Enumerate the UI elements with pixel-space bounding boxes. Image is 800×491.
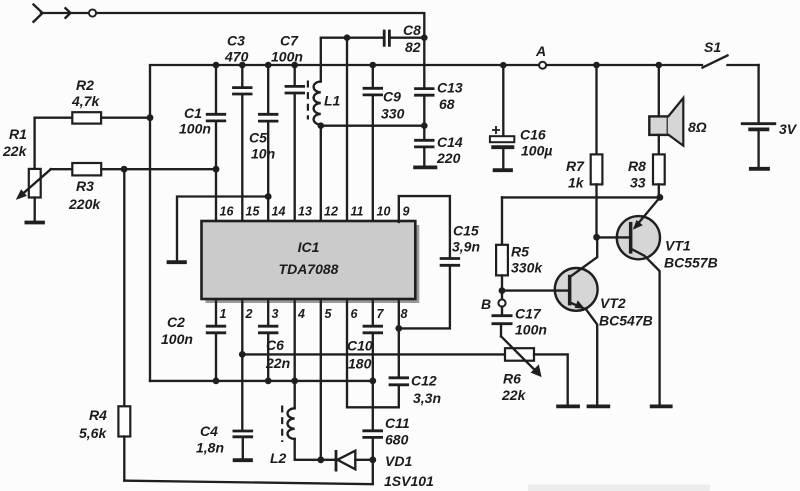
svg-text:C3: C3: [227, 33, 245, 49]
svg-text:IC1: IC1: [298, 239, 320, 255]
node B: [481, 296, 506, 312]
svg-text:22n: 22n: [265, 355, 290, 371]
svg-text:C5: C5: [249, 130, 267, 146]
bottom wire R4 to VD1 node: [124, 460, 372, 484]
faint erased watermark bottom: [528, 485, 710, 491]
speaker BA1: [649, 65, 706, 154]
wire pin8: [398, 301, 400, 329]
capacitor C17: [492, 306, 547, 338]
svg-text:4: 4: [297, 307, 305, 321]
svg-text:470: 470: [224, 49, 249, 65]
transistor VT2 BC547B: [502, 237, 653, 405]
resistor R8: [628, 154, 665, 197]
svg-text:1SV101: 1SV101: [384, 473, 434, 489]
wire antenna line to C13 drop: [96, 13, 424, 37]
svg-text:11: 11: [351, 205, 364, 219]
svg-text:A: A: [535, 43, 546, 59]
capacitor C16: [490, 65, 553, 168]
svg-text:100n: 100n: [515, 322, 547, 338]
bus junction dots: [213, 378, 220, 385]
capacitor C4: [196, 423, 253, 458]
svg-text:220: 220: [436, 150, 461, 166]
svg-text:C2: C2: [167, 314, 185, 330]
node dot VD1/C11/bottom wire: [369, 456, 376, 463]
svg-text:8: 8: [401, 307, 408, 321]
node dot R3/R4: [121, 166, 128, 173]
svg-text:R1: R1: [9, 126, 27, 142]
svg-text:C4: C4: [200, 423, 218, 439]
svg-text:100n: 100n: [161, 331, 193, 347]
svg-text:3: 3: [272, 307, 279, 321]
potentiometer R1: [2, 126, 51, 200]
node dot R8/VT1 emitter: [657, 194, 664, 201]
node dot C13/C14/L1 line: [421, 122, 428, 129]
node dot L2/pin5: [317, 456, 324, 463]
svg-text:C7: C7: [280, 33, 299, 49]
transistor VT1 BC557B: [597, 197, 718, 404]
node dot pin14 ground branch: [265, 193, 272, 200]
IC top pin numbers: [220, 205, 410, 219]
node dot R3 line / C1 / pin16: [213, 166, 220, 173]
ground under VT1: [650, 404, 673, 408]
svg-text:82: 82: [405, 39, 421, 55]
svg-text:10n: 10n: [251, 146, 275, 162]
ground bus under IC: [150, 380, 373, 382]
svg-text:C11: C11: [385, 415, 410, 431]
svg-text:5,6k: 5,6k: [79, 425, 107, 441]
svg-text:22k: 22k: [2, 143, 28, 159]
svg-text:C10: C10: [347, 338, 373, 354]
capacitor C15: [399, 223, 480, 329]
supply rail: [150, 65, 539, 118]
svg-text:100n: 100n: [271, 49, 303, 65]
wire rail-drop x150: [149, 118, 151, 381]
capacitor C9: [363, 65, 405, 222]
ground under R6: [556, 404, 580, 408]
svg-text:L1: L1: [324, 93, 341, 109]
ground bar under C4: [233, 458, 253, 462]
svg-text:C17: C17: [515, 306, 542, 322]
svg-text:C1: C1: [184, 105, 202, 121]
capacitor C6: [258, 301, 290, 381]
svg-text:C8: C8: [403, 22, 421, 38]
node dot C8/antenna: [421, 34, 428, 41]
svg-text:3,9n: 3,9n: [452, 239, 480, 255]
capacitor C11: [362, 381, 409, 460]
wire pin9 loop to C15: [399, 196, 450, 257]
wire C8 right to C13 top: [423, 38, 425, 87]
node dot C8 left / pin11 line: [344, 34, 351, 41]
capacitor C13: [414, 80, 463, 126]
svg-text:330: 330: [381, 106, 405, 122]
svg-text:C9: C9: [383, 89, 401, 105]
resistor R7: [566, 65, 602, 237]
rail junction dots: [213, 62, 220, 69]
svg-text:100µ: 100µ: [521, 143, 552, 159]
svg-text:15: 15: [246, 205, 261, 219]
resistor R5: [496, 197, 543, 299]
svg-text:BC547B: BC547B: [599, 313, 653, 329]
node dot R2/rail drop: [147, 114, 154, 121]
svg-text:9: 9: [403, 205, 410, 219]
ground under R1: [25, 221, 45, 225]
wire R5 top to R8/VT1 node: [502, 196, 660, 198]
resistor R3: [51, 163, 216, 212]
svg-text:C13: C13: [437, 80, 463, 96]
resistor R2: [35, 77, 150, 124]
resistor R4: [79, 169, 130, 480]
svg-text:180: 180: [348, 356, 372, 372]
svg-text:8Ω: 8Ω: [688, 119, 707, 135]
ground under battery: [749, 167, 770, 171]
capacitor C14: [414, 126, 463, 166]
ground branch at pin 14: [167, 197, 269, 263]
svg-text:C6: C6: [266, 337, 284, 353]
svg-text:330k: 330k: [511, 260, 543, 276]
svg-text:1: 1: [220, 307, 227, 321]
wire pin2: [241, 301, 243, 430]
svg-text:7: 7: [377, 307, 385, 321]
svg-text:4,7k: 4,7k: [71, 93, 100, 109]
svg-text:VD1: VD1: [385, 453, 412, 469]
svg-text:B: B: [481, 296, 491, 312]
svg-text:10: 10: [377, 205, 391, 219]
ground under VT2: [587, 404, 611, 408]
svg-text:680: 680: [385, 432, 409, 448]
svg-text:C12: C12: [411, 373, 437, 389]
svg-text:68: 68: [439, 96, 455, 112]
antenna WA1: [34, 5, 97, 22]
capacitor C5: [249, 65, 278, 222]
battery GB1 3V: [741, 65, 798, 167]
svg-text:BC557B: BC557B: [664, 255, 718, 271]
node A: [535, 43, 546, 69]
svg-text:2: 2: [245, 307, 253, 321]
svg-text:C16: C16: [520, 127, 546, 143]
svg-text:1,8n: 1,8n: [196, 440, 224, 456]
capacitor C1: [179, 65, 226, 169]
IC1 TDA7088: [202, 221, 420, 303]
svg-text:1k: 1k: [568, 175, 585, 191]
capacitor C2: [161, 301, 226, 381]
svg-text:13: 13: [298, 205, 312, 219]
svg-text:R7: R7: [566, 158, 585, 174]
svg-text:S1: S1: [704, 39, 721, 55]
node dot pin8/C15: [395, 325, 402, 332]
switch S1: [703, 39, 759, 68]
svg-text:14: 14: [272, 205, 286, 219]
ground under C16: [493, 168, 513, 172]
varicap diode VD1: [321, 450, 434, 489]
wire R1 to ground: [34, 198, 36, 221]
svg-text:3V: 3V: [779, 121, 798, 137]
svg-text:220k: 220k: [68, 196, 101, 212]
svg-text:R2: R2: [76, 77, 94, 93]
trimmer R6: [501, 336, 568, 404]
svg-text:12: 12: [324, 205, 338, 219]
wire pin16: [215, 169, 217, 222]
svg-text:VT2: VT2: [600, 295, 626, 311]
wire pin4: [294, 301, 296, 409]
node dot R5/VT2 base: [499, 287, 506, 294]
svg-text:R3: R3: [76, 178, 94, 194]
svg-text:3,3n: 3,3n: [413, 390, 441, 406]
node dot VT2 collector / R7 / VT1 base: [593, 234, 600, 241]
capacitor C10: [347, 301, 383, 381]
svg-text:16: 16: [220, 205, 235, 219]
inductor L1: [308, 38, 341, 222]
svg-text:33: 33: [630, 175, 646, 191]
svg-text:R4: R4: [89, 407, 107, 423]
svg-text:6: 6: [351, 307, 359, 321]
svg-text:R6: R6: [503, 371, 521, 387]
svg-text:C14: C14: [437, 134, 463, 150]
node dot L1 bottom: [318, 122, 325, 129]
wire R2 left down to R1: [33, 118, 35, 169]
node dot pin2 / R6 line: [239, 351, 246, 358]
svg-text:R5: R5: [511, 244, 529, 260]
svg-text:C15: C15: [453, 223, 479, 239]
svg-text:VT1: VT1: [665, 238, 691, 254]
ground under C14: [413, 165, 437, 169]
svg-text:22k: 22k: [501, 387, 527, 403]
svg-text:100n: 100n: [179, 121, 211, 137]
capacitor C8: [321, 22, 424, 55]
wire pin5: [320, 301, 322, 460]
svg-text:L2: L2: [270, 450, 287, 466]
capacitor C7: [271, 33, 305, 223]
capacitor C3: [224, 33, 253, 223]
IC bottom pin numbers: [220, 307, 408, 321]
wire L1 bottom to C13/C14 junction: [321, 125, 425, 127]
svg-text:TDA7088: TDA7088: [279, 261, 339, 277]
svg-text:5: 5: [325, 307, 333, 321]
capacitor C12: [347, 301, 441, 408]
tuning line pin2 to R6: [242, 353, 505, 355]
wire pin11 line from C8 junction down to IC: [346, 38, 348, 222]
inductor L2: [270, 406, 321, 467]
svg-text:R8: R8: [628, 158, 646, 174]
